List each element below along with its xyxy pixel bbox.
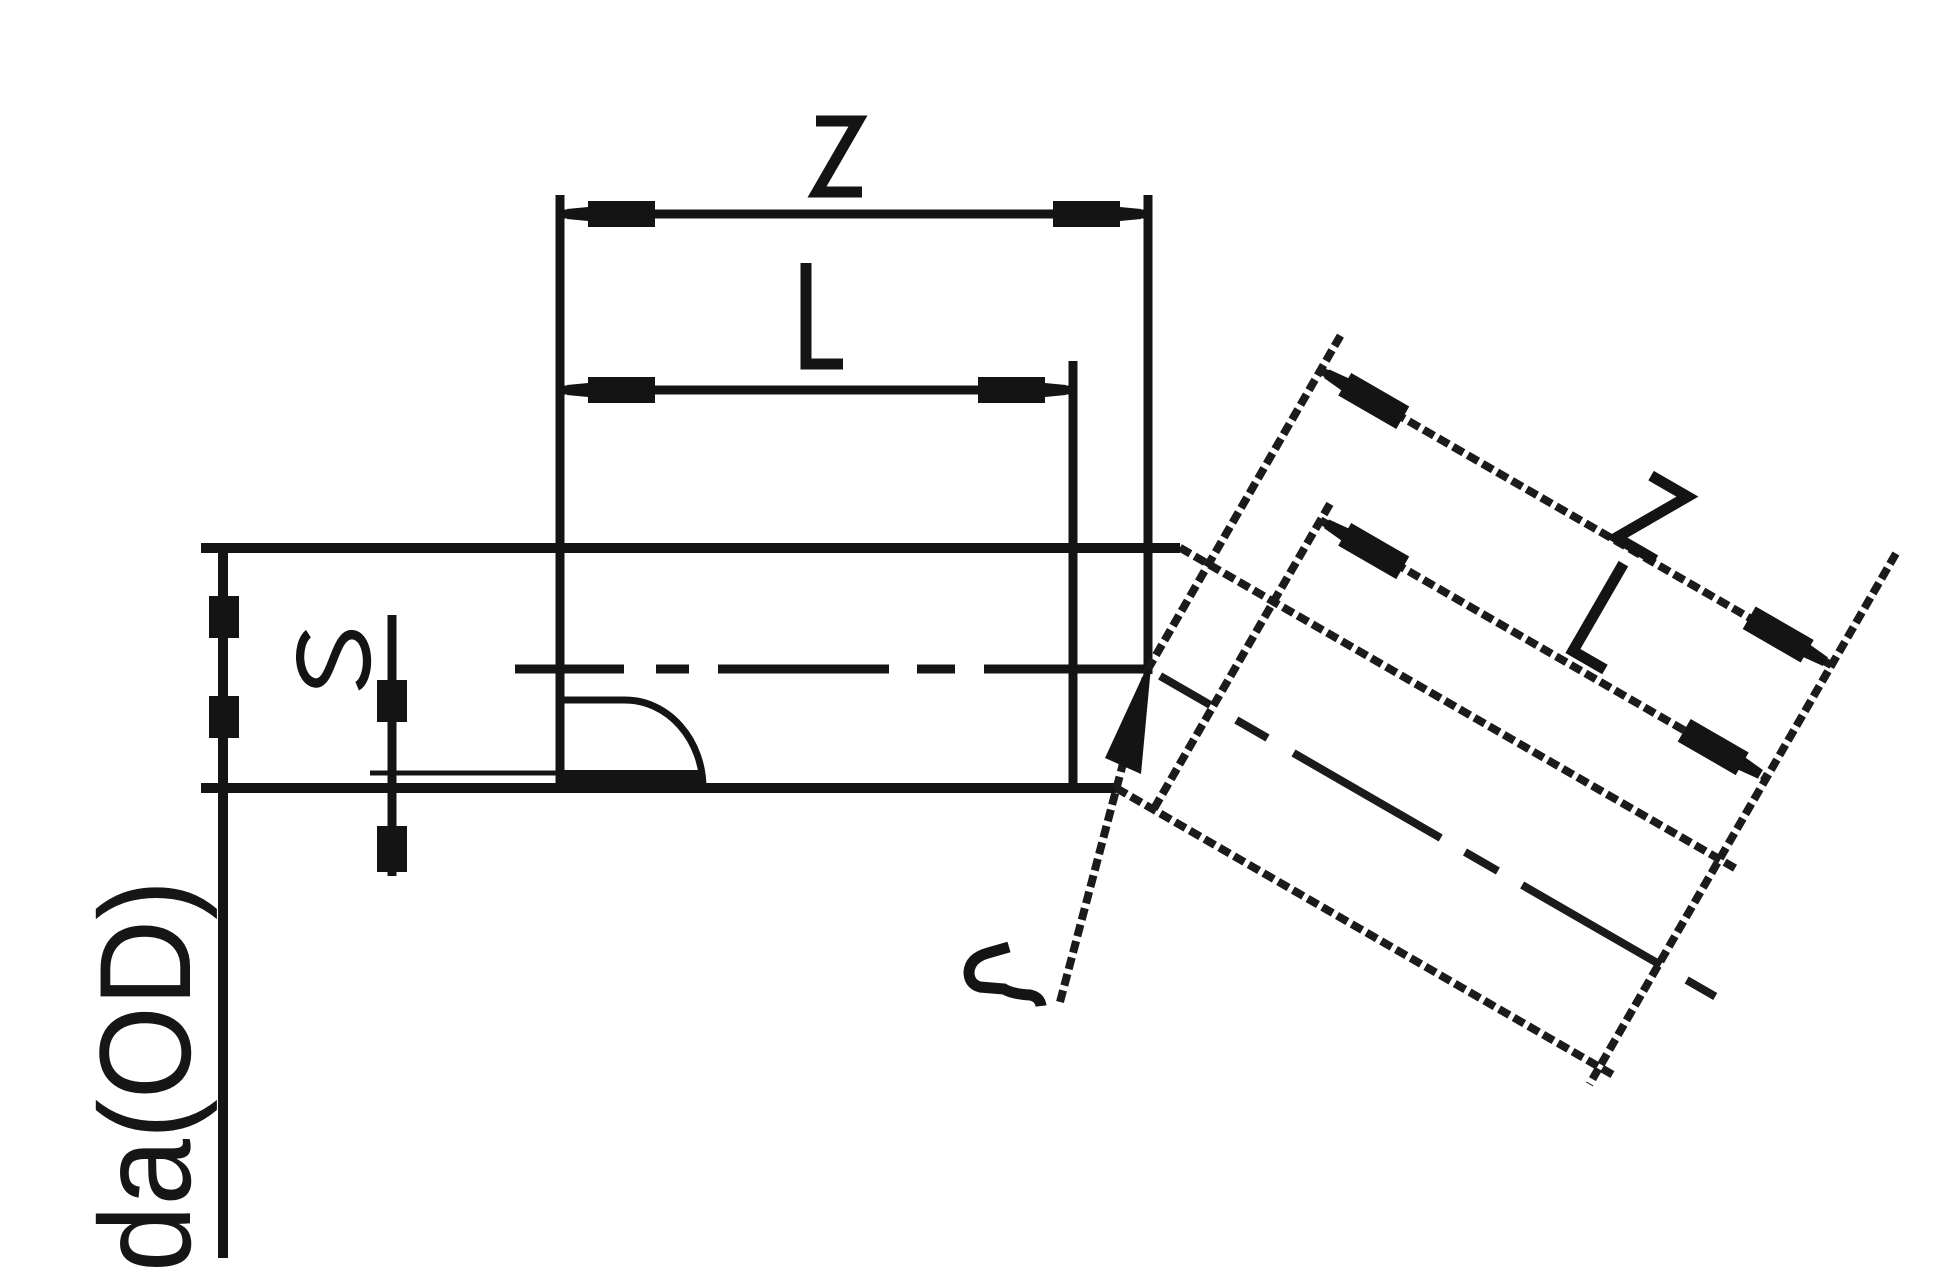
L dimension line (horizontal) xyxy=(560,386,1073,395)
mouth edge / L extension line (right end of horizontal socket) xyxy=(1069,361,1078,788)
L right arrow xyxy=(978,377,1066,403)
svg-text:da(OD): da(OD) xyxy=(73,880,218,1272)
angle leader line (miter direction) xyxy=(1060,669,1148,1002)
Z right extension line (axis intersection) xyxy=(1144,195,1153,674)
angle label glyph xyxy=(969,947,1041,1006)
L label (horizontal) xyxy=(806,263,843,364)
pipe body: bottom edge of horizontal socket xyxy=(201,783,1116,793)
angled socket group rotated 30 degrees about axis intersection xyxy=(1050,242,1952,1117)
angled Z dimension line xyxy=(1321,370,1832,665)
angled Z label xyxy=(1616,476,1691,560)
Z right arrow xyxy=(1053,201,1141,227)
pipe body: top edge of horizontal socket xyxy=(201,543,1180,553)
s lower arrow block xyxy=(377,826,407,872)
socket-bottom extension line (left extension for Z and L) xyxy=(556,195,565,783)
angled end line / far extension xyxy=(1589,554,1896,1085)
left end edge / da(OD) dimension line xyxy=(218,552,228,1258)
Z left arrow xyxy=(567,201,655,227)
angled pipe lower edge xyxy=(1116,788,1617,1077)
da(OD) top arrow block xyxy=(209,596,239,638)
s label (rotated single-stroke s) xyxy=(300,634,367,686)
centerline of horizontal socket (dash-dot) xyxy=(515,665,1150,674)
angled L left arrow xyxy=(1320,513,1409,580)
s dimension line xyxy=(388,615,397,876)
Z dimension line (horizontal) xyxy=(560,210,1148,219)
angled mouth line / L near extension xyxy=(1153,504,1330,810)
angled centerline xyxy=(1160,676,1715,997)
angle leader arrowhead at axis intersection xyxy=(1105,656,1152,774)
angled Z right arrow xyxy=(1743,606,1832,673)
fusion bead fill xyxy=(560,770,703,792)
angled Z left arrow xyxy=(1320,362,1409,429)
Z label (horizontal) xyxy=(816,121,862,192)
socket bottom arc xyxy=(560,700,703,788)
inner bore line (thin) xyxy=(370,771,560,776)
angled L right arrow xyxy=(1678,719,1767,786)
angled L label xyxy=(1573,564,1656,670)
angled Z near extension line xyxy=(1148,336,1341,669)
s upper arrow block xyxy=(377,680,407,722)
angled pipe upper edge xyxy=(1180,548,1737,870)
angled L dimension line xyxy=(1320,520,1766,778)
L left arrow xyxy=(567,377,655,403)
da(OD) bottom arrow block xyxy=(209,696,239,738)
